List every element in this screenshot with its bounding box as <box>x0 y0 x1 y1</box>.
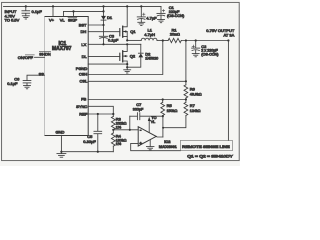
IC1 MAX797 <box>39 17 89 136</box>
resistor R6 49.9k <box>184 41 202 100</box>
node REF R3 junction <box>112 113 114 115</box>
wire IC1 GND pin <box>60 136 62 152</box>
wire DL to Q2 gate <box>88 55 120 57</box>
svg-text:1%: 1% <box>116 125 122 129</box>
svg-text:VL: VL <box>60 18 66 23</box>
svg-text:0.1µF: 0.1µF <box>7 81 18 86</box>
wire LX <box>88 43 141 45</box>
node R3 R4 junction <box>112 129 114 131</box>
wire divider to inverting input <box>113 129 138 131</box>
inductor L1 4.7uH <box>127 28 163 41</box>
ground Q2 source <box>124 67 131 73</box>
wire remote sense drop <box>227 41 229 141</box>
resistor R5 150k <box>161 100 178 117</box>
node FB R6R7 junction <box>185 98 187 100</box>
wire C7 to inverting input <box>129 116 131 130</box>
node PGND junction <box>126 63 128 65</box>
svg-text:TO 5.5V: TO 5.5V <box>5 18 20 23</box>
svg-text:SYNC: SYNC <box>76 104 87 109</box>
node V+ tap <box>52 5 54 7</box>
capacitor C1 220uF OS-CON <box>157 5 184 20</box>
node C5 ground tap <box>97 151 99 153</box>
wire DH to Q1 gate <box>88 31 120 33</box>
resistor R7 124k <box>163 100 201 128</box>
capacitor C5 0.33uF ref bypass <box>83 114 101 152</box>
svg-text:D2: D2 <box>145 51 151 56</box>
svg-text:1%: 1% <box>116 142 122 146</box>
svg-text:VL: VL <box>151 120 156 124</box>
svg-text:FB: FB <box>81 97 86 102</box>
svg-text:C7: C7 <box>136 102 142 107</box>
node C2 tap <box>195 39 197 41</box>
wire op-amp VL supply arrow <box>148 116 157 132</box>
svg-text:4.7µF: 4.7µF <box>146 15 157 20</box>
transistor Q1 Si9410DY high side <box>120 6 137 40</box>
svg-text:PGND: PGND <box>76 66 88 71</box>
svg-text:REMOTE SENSE LINE: REMOTE SENSE LINE <box>182 145 230 149</box>
node output terminal <box>227 39 229 41</box>
svg-text:DL: DL <box>82 54 88 59</box>
node R6 output tap <box>185 39 187 41</box>
svg-text:CSL: CSL <box>80 79 89 84</box>
svg-text:SKIP: SKIP <box>68 18 77 23</box>
svg-text:Q1 = Q2 = Si9410DY: Q1 = Q2 = Si9410DY <box>187 155 233 159</box>
svg-text:1N5820: 1N5820 <box>145 57 158 61</box>
node remote sense label box <box>180 140 232 150</box>
svg-text:330pF: 330pF <box>133 108 144 112</box>
svg-text:150kΩ: 150kΩ <box>167 109 178 113</box>
svg-text:+: + <box>139 141 142 146</box>
capacitor C6 soft start <box>7 76 31 85</box>
svg-text:0.33µF: 0.33µF <box>83 139 96 144</box>
svg-text:0.1µF: 0.1µF <box>108 37 119 42</box>
ground 4.7uF <box>138 22 145 25</box>
svg-text:REF: REF <box>79 111 88 116</box>
svg-text:IC2: IC2 <box>164 139 171 144</box>
wire rail to VL line <box>103 6 105 11</box>
wire V+ pin <box>52 6 54 16</box>
wire input rail <box>4 5 162 7</box>
wire analog ground bus <box>61 151 113 153</box>
capacitor 0.1uF input bypass <box>22 6 42 15</box>
op-amp IC2 MAX4091 <box>138 127 177 150</box>
wire ON/OFF to SHDN <box>35 56 45 58</box>
wire VL-SKIP to D1 <box>64 10 104 12</box>
svg-text:GND: GND <box>56 130 65 135</box>
resistor R4 180k 1% <box>111 130 126 152</box>
ground input cap <box>22 16 29 19</box>
node input cap tap <box>25 5 27 7</box>
svg-text:D1: D1 <box>107 15 113 20</box>
svg-text:124kΩ: 124kΩ <box>190 109 201 113</box>
ground op-amp <box>146 140 154 150</box>
node REF C5 tap <box>97 113 99 115</box>
wire SS pin <box>27 75 45 80</box>
svg-text:49.9kΩ: 49.9kΩ <box>190 92 202 96</box>
svg-text:(OS-CON): (OS-CON) <box>167 14 184 18</box>
svg-text:R5: R5 <box>167 103 173 108</box>
svg-text:Q1: Q1 <box>130 29 136 34</box>
resistor R1 20mOhm sense <box>163 27 229 42</box>
node L1 LX junction <box>126 39 128 41</box>
svg-text:0.1µF: 0.1µF <box>32 9 43 14</box>
svg-text:AT 3A: AT 3A <box>224 32 235 37</box>
diode D1 <box>101 11 113 25</box>
wire CSH <box>88 41 163 75</box>
svg-text:ON/OFF: ON/OFF <box>18 55 34 60</box>
capacitor 4.7uF input <box>137 5 157 22</box>
node D2 return junction <box>126 66 128 68</box>
node CSH tap <box>162 39 164 41</box>
node BST junction <box>102 24 104 26</box>
svg-text:MAX4091: MAX4091 <box>159 144 178 149</box>
svg-text:4.7µH: 4.7µH <box>144 32 155 37</box>
transistor Q2 Si9410DY synchronous rectifier <box>120 44 136 67</box>
wire non-inverting input to remote sense <box>131 143 181 150</box>
border frame <box>2 2 240 160</box>
capacitor C7 330pF <box>130 102 163 120</box>
resistor R3 232k 1% <box>111 114 126 130</box>
node VL rail tap <box>102 5 104 7</box>
node D1 anode <box>102 10 104 12</box>
wire REF <box>88 113 113 115</box>
svg-text:20mΩ: 20mΩ <box>170 32 180 36</box>
node INPUT label <box>5 9 20 23</box>
wire SYNC <box>88 106 113 114</box>
node output label <box>206 28 235 37</box>
capacitor C2 2x220uF OS-CON <box>192 41 219 57</box>
capacitor C3 0.1uF bootstrap <box>99 25 119 44</box>
svg-text:BST: BST <box>79 22 87 27</box>
ground C2 <box>192 54 199 57</box>
svg-text:R7: R7 <box>190 103 196 108</box>
svg-text:LX: LX <box>81 42 86 47</box>
node Q1 drain rail tap <box>126 5 128 7</box>
wire CSL <box>88 80 186 82</box>
svg-text:(OS-CON): (OS-CON) <box>201 53 218 57</box>
ground IC1 GND <box>57 152 66 158</box>
node CSL tap <box>185 80 187 82</box>
node LX main <box>126 43 128 45</box>
node ON/OFF label <box>18 55 35 60</box>
wire VL pin <box>63 11 65 16</box>
svg-text:SS: SS <box>39 71 45 76</box>
ground C6 <box>24 86 31 89</box>
wire PGND <box>88 63 127 65</box>
wire SKIP pin <box>73 11 75 16</box>
node FB R5 junction <box>162 98 164 100</box>
wire op-amp output <box>156 135 163 138</box>
svg-text:R6: R6 <box>190 87 196 92</box>
wire output node vertical <box>162 116 164 137</box>
svg-text:SHDN: SHDN <box>39 51 50 56</box>
node inverting input junction <box>129 129 131 131</box>
svg-text:Q2: Q2 <box>130 54 136 59</box>
svg-text:CSH: CSH <box>79 71 88 76</box>
wire BST <box>88 24 103 26</box>
svg-text:MAX797: MAX797 <box>52 46 72 52</box>
wire FB <box>88 99 186 101</box>
ground C1 <box>158 20 165 23</box>
node output tee <box>162 127 164 129</box>
node R5 C7 junction <box>162 115 164 117</box>
svg-text:DH: DH <box>81 29 87 34</box>
svg-text:V+: V+ <box>49 18 55 23</box>
node GND junction <box>60 151 62 153</box>
node LX C3 <box>102 43 104 45</box>
node SKIP junction <box>72 10 74 12</box>
diode D2 1N5820 <box>127 44 158 67</box>
